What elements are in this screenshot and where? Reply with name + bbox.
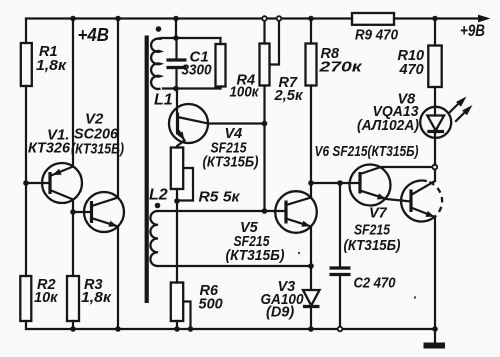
wire L1 bottom link [163,87,221,89]
svg-text:500: 500 [199,297,223,313]
R7 wiper tap [270,19,280,65]
node top rail x73 [70,16,76,22]
resistor R2 [20,276,31,321]
svg-text:(КТ315Б): (КТ315Б) [344,238,401,254]
svg-text:C2 470: C2 470 [354,275,397,292]
resistor R6 [171,283,183,322]
node top rail x176 [173,16,179,22]
R6 wiper tap [183,302,190,330]
capacitor C2 [330,183,351,329]
svg-text:SF215: SF215 [354,223,391,239]
wire R8 bottom to node [310,86,312,184]
wire V7 collector up [434,167,436,181]
svg-text:(КТ315Б): (КТ315Б) [226,248,285,264]
resistor R7 [260,44,270,86]
transistor V4 [169,89,208,148]
svg-text:270к: 270к [318,60,362,76]
wire V7 emitter down [434,217,436,329]
svg-text:КТ326: КТ326 [28,140,71,157]
wire left column mid [25,86,27,276]
node V5 emitter / L2 [308,263,314,269]
node bottom rail right [432,326,438,332]
wire left column bottom [25,321,27,329]
node tank bottom [173,86,179,92]
svg-text:(D9): (D9) [266,305,294,321]
node V2 emitter rail [115,326,121,332]
wire V4 collector [208,122,265,124]
svg-text:100к: 100к [230,85,260,101]
wire L2 bottom lead [158,265,311,267]
node R6 bottom rail [174,326,180,332]
svg-text:1,8к: 1,8к [36,58,67,74]
wire R3 bottom [72,321,74,329]
wire R6 bottom [176,321,178,329]
transistor V7 [401,181,442,222]
node top rail R10 [432,16,438,22]
+9V arrow head [478,15,491,23]
transistor V2 [73,192,124,232]
wire left column top [25,19,27,44]
wire V5 collector up [310,183,312,198]
svg-text:2,5к: 2,5к [273,88,303,104]
wire R5 bottom [176,189,178,202]
resistor R8 [306,44,317,86]
svg-text:SC206: SC206 [74,126,119,143]
wire node to V6 base [311,182,360,184]
svg-text:+4В: +4В [78,24,110,45]
node V5 base [262,208,268,214]
svg-text:(АЛ102А): (АЛ102А) [357,118,419,134]
diode V3 [303,266,320,329]
node R6 wiper rail [188,326,194,332]
resistor R1 [21,43,32,86]
wire bottom rail [26,328,435,330]
node V4 collector / R7 [262,121,268,127]
wire L2 top lead to V5 base [158,210,286,212]
inductor L2 polarity dot [155,203,161,209]
capacitor C1 [167,38,187,89]
node C2 bottom rail (ring) [338,327,343,332]
svg-text:R9 470: R9 470 [355,27,399,44]
node R3 bottom rail [70,326,76,332]
svg-text:+9В: +9В [460,22,485,40]
inductor L2 [150,211,158,266]
svg-text:V7: V7 [369,206,388,222]
node top rail R8 [308,16,314,22]
wire rail to tank [175,19,177,39]
wire V1 emitter column [72,19,74,167]
resistor R3 [67,276,79,321]
svg-text:1,8к: 1,8к [81,290,112,306]
node tank top [173,35,179,41]
wire top rail left segment [26,17,352,19]
speck [414,296,416,298]
node top rail x118 [115,16,121,22]
resistor R10 [428,46,441,88]
node R5 bottom [174,198,180,204]
inductor L1 [151,39,160,89]
node V3 bottom rail [308,326,314,332]
speck [298,252,300,254]
node C2 top [337,180,343,186]
svg-text:470: 470 [399,62,424,78]
node LED/V6/V7 (ring) [432,165,437,170]
svg-text:(КТ315Б): (КТ315Б) [203,155,259,171]
transistor V6 [350,165,435,206]
svg-text:10к: 10к [34,290,58,306]
wire R7 bottom to V4 node [263,86,265,124]
LED V8 [420,87,472,165]
R5 wiper tap [178,168,194,201]
transistor V1 [26,163,82,203]
svg-text:L1: L1 [154,92,173,109]
wire V5 emitter down [310,227,312,267]
wire top rail right segment [394,17,479,19]
svg-text:L2: L2 [149,187,168,204]
svg-text:V6 SF215(КТ315Б): V6 SF215(КТ315Б) [315,144,419,160]
node R8 / V5 collector / V6 base [308,180,314,186]
transistor V5 [275,191,317,233]
wire L1 top link [161,37,221,40]
transformer core [145,36,149,304]
svg-text:(КТ315Б): (КТ315Б) [71,142,124,158]
ground [424,329,446,349]
wire V2 collector column [117,19,119,198]
svg-text:R5 5к: R5 5к [199,189,241,206]
node R7 top (ring) [262,16,267,21]
svg-text:3300: 3300 [182,62,213,79]
resistor R5 [171,148,183,190]
wire V4 node to V5 base node [263,124,265,212]
resistor R9 [352,13,394,25]
node V2 base [70,209,76,215]
node V1 base [23,180,29,186]
resistor R4 [216,44,226,87]
wire V2 emitter to rail [117,227,119,330]
wire R5 node to R6 [176,201,178,283]
node R7 wiper top (ring) [277,16,282,21]
inductor L1 polarity dot [156,26,162,32]
wire V1 collector to R3 [72,200,74,277]
